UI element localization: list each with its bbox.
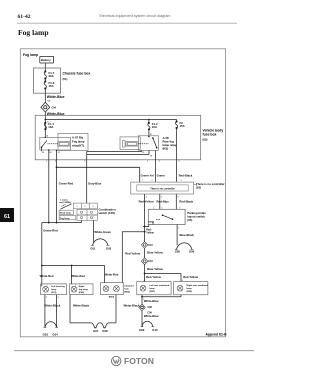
svg-text:30A: 30A [49,74,54,78]
svg-text:Red-Yellow: Red-Yellow [183,275,199,279]
svg-text:lamp: lamp [187,288,193,290]
svg-text:White-Blue: White-Blue [47,95,65,99]
svg-text:White-Black: White-Black [73,303,89,307]
svg-text:Red-Blue: Red-Blue [157,199,170,203]
svg-text:Head lamp: Head lamp [60,212,72,214]
svg-text:61-42: 61-42 [18,14,31,20]
svg-text:61: 61 [4,214,10,220]
svg-text:1 rotary: 1 rotary [60,198,68,201]
svg-text:3: 3 [55,161,56,163]
svg-text:G10: G10 [152,328,158,332]
svg-text:5: 5 [161,197,162,199]
svg-text:3: 3 [93,206,94,208]
svg-text:2: 2 [152,180,153,182]
svg-text:Green-Red: Green-Red [43,229,58,233]
svg-text:15A: 15A [180,124,185,128]
svg-text:FOTON: FOTON [124,356,154,366]
svg-text:86: 86 [50,152,52,154]
svg-text:(R02): (R02) [187,291,193,293]
svg-text:Battery: Battery [41,58,51,62]
svg-text:Right rear combined: Right rear combined [187,284,209,287]
svg-text:85: 85 [142,152,144,154]
svg-text:Clamped: Clamped [124,285,134,287]
svg-text:4: 4 [146,197,147,199]
svg-text:Yellow: Yellow [146,231,154,234]
svg-text:4: 4 [182,280,183,282]
svg-text:G07: G07 [93,329,99,333]
svg-text:0.5: 0.5 [47,121,50,123]
svg-text:White-Blue: White-Blue [144,299,159,303]
svg-text:(R03): (R03) [124,291,130,293]
svg-text:White-Blue: White-Blue [47,112,65,116]
svg-text:0.5: 0.5 [48,101,52,103]
svg-text:10A: 10A [152,125,157,129]
svg-text:G01: G01 [90,247,96,251]
svg-text:(R03): (R03) [109,297,115,299]
svg-text:G04: G04 [52,332,58,336]
svg-text:switch (C05): switch (C05) [99,211,116,215]
svg-text:lamp: lamp [51,289,57,291]
svg-text:C08: C08 [147,306,152,309]
svg-text:G06: G06 [189,250,195,254]
svg-text:fuse box: fuse box [203,133,217,137]
svg-text:lamp: lamp [150,288,156,290]
svg-text:2: 2 [46,297,47,299]
svg-text:2: 2 [178,227,179,229]
svg-text:Left rear combined: Left rear combined [150,284,170,287]
svg-text:(01): (01) [63,77,68,81]
svg-text:White-Blue: White-Blue [144,314,159,318]
svg-text:Fog lamp: Fog lamp [23,53,38,57]
svg-text:fog lamp: fog lamp [79,289,89,291]
svg-text:6: 6 [178,197,179,199]
svg-text:4: 4 [144,280,145,282]
svg-text:White-Red: White-Red [105,272,119,276]
svg-text:C15: C15 [148,244,153,247]
svg-text:relay(K7): relay(K7) [72,144,84,148]
svg-text:Red-Black: Red-Black [179,174,193,178]
svg-text:White-Green: White-Green [94,230,111,234]
svg-text:sw.(COMB): sw.(COMB) [59,202,71,204]
svg-text:(F01): (F01) [51,292,56,294]
svg-text:1: 1 [46,161,47,163]
svg-text:(04): (04) [187,218,192,222]
svg-text:G08: G08 [102,329,108,333]
svg-text:(02): (02) [203,138,208,142]
svg-text:1: 1 [153,208,154,210]
svg-text:Green-Yel: Green-Yel [141,174,154,178]
svg-text:White-Black: White-Black [124,303,140,307]
svg-text:C04: C04 [52,106,57,109]
svg-text:Red-Yellow: Red-Yellow [125,252,141,256]
svg-text:There is no controller: There is no controller [150,187,175,190]
svg-text:G03: G03 [43,332,49,336]
svg-text:15A: 15A [49,84,54,88]
svg-text:Blue-Yellow: Blue-Yellow [147,267,164,271]
svg-text:2: 2 [147,161,148,163]
svg-text:85: 85 [42,152,44,154]
svg-text:86: 86 [150,156,152,158]
svg-text:5: 5 [179,208,180,210]
svg-text:(F02): (F02) [79,292,84,294]
svg-text:White-Red: White-Red [71,274,85,278]
svg-text:Fog lamp: Fog lamp [60,218,70,220]
svg-text:6: 6 [179,161,180,163]
svg-text:1: 1 [142,180,143,182]
svg-text:Right: Right [79,285,85,288]
svg-text:White-Red: White-Red [40,274,54,278]
svg-text:30: 30 [150,134,152,136]
svg-text:C16: C16 [148,260,153,263]
svg-text:8: 8 [196,185,197,187]
svg-text:Electrical equipment system ci: Electrical equipment system circuit diag… [100,14,171,18]
svg-text:4: 4 [159,161,160,163]
svg-text:Chassis fuse box: Chassis fuse box [63,72,91,76]
svg-text:30: 30 [46,136,48,138]
svg-text:(R01): (R01) [150,291,156,293]
svg-text:87: 87 [58,152,60,154]
svg-text:Green-Red: Green-Red [59,182,74,186]
svg-text:Blue-Black: Blue-Black [180,233,195,237]
svg-text:3: 3 [161,208,162,210]
svg-text:Red-Yellow: Red-Yellow [146,275,162,279]
svg-text:Fog lamp: Fog lamp [18,28,49,37]
svg-text:G05: G05 [175,250,181,254]
svg-text:5: 5 [143,299,144,301]
svg-text:(K8): (K8) [163,147,169,151]
svg-text:Append 61-H: Append 61-H [206,332,227,336]
svg-text:3: 3 [58,297,59,299]
svg-text:Red-Black: Red-Black [179,199,193,203]
svg-text:G09: G09 [139,328,145,332]
svg-text:1: 1 [75,284,76,286]
svg-text:Gray-Blue: Gray-Blue [88,182,102,186]
svg-text:hole: hole [124,288,129,290]
svg-text:G02: G02 [106,247,112,251]
svg-text:Left front fog: Left front fog [51,285,65,288]
svg-text:Blue-Yellow: Blue-Yellow [147,251,164,255]
svg-text:White-Black: White-Black [44,303,60,307]
svg-text:1: 1 [47,284,48,286]
svg-text:10A: 10A [48,125,53,129]
svg-text:Green: Green [157,174,165,178]
svg-text:2: 2 [85,206,86,208]
svg-text:Red-Yellow: Red-Yellow [139,199,155,203]
svg-text:1: 1 [77,206,78,208]
svg-text:5: 5 [84,161,85,163]
svg-text:3: 3 [181,180,182,182]
